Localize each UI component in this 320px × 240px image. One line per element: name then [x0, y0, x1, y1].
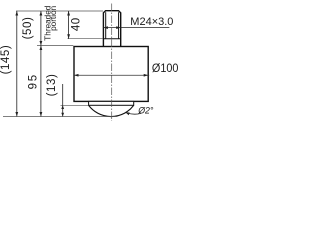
- svg-text:M24×3.0: M24×3.0: [130, 16, 173, 28]
- svg-text:portion: portion: [49, 5, 58, 30]
- svg-text:(13): (13): [46, 74, 58, 97]
- stud outline (threaded stud M24, chamfered top): [103, 11, 120, 47]
- thread minor diameter line right: [118, 12, 120, 39]
- diameter100 dimension line across body with outward arrows: [74, 74, 149, 76]
- svg-text:Ø100: Ø100: [152, 61, 179, 75]
- svg-text:40: 40: [71, 17, 83, 31]
- centerline (vertical dash-dot through part): [111, 4, 113, 122]
- extension line ball bottom ground: [3, 116, 117, 118]
- dim line (145): [16, 11, 18, 117]
- 2deg leader arrow to ball: [125, 112, 141, 114]
- dim line 40 threaded portion: [68, 11, 70, 39]
- thread end line across stud: [103, 38, 120, 40]
- extension line thread end: [68, 38, 104, 40]
- pad body rectangle (diameter 100 body): [74, 47, 148, 102]
- thread minor diameter line left: [105, 12, 107, 39]
- extension line washer bottom: [61, 104, 89, 106]
- M24 dimension line with arrows at stud edges: [103, 27, 169, 29]
- extension line stud top: [16, 10, 103, 12]
- svg-text:(50): (50): [22, 17, 34, 40]
- dim line (13): [62, 84, 64, 117]
- ball dome arc: [89, 105, 134, 116]
- ball retainer washer strip: [89, 101, 134, 105]
- dim line (50)/95 shared: [40, 11, 42, 117]
- extension line body top: [37, 45, 73, 47]
- svg-text:Ø2°: Ø2°: [137, 106, 154, 116]
- svg-text:95: 95: [27, 73, 39, 89]
- svg-text:(145): (145): [0, 45, 12, 75]
